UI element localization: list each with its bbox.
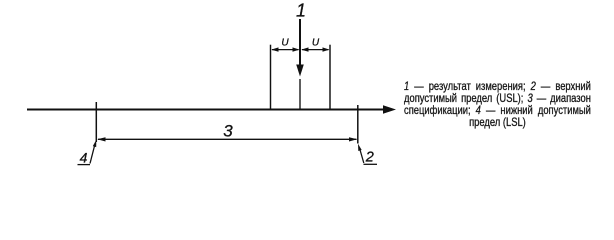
leader to label 2 — [358, 144, 364, 163]
legend text block — [404, 80, 591, 128]
measurement arrow 1 head — [296, 65, 304, 77]
axis line — [27, 109, 385, 111]
right U dimension arrow — [301, 47, 329, 51]
svg-text:U: U — [281, 38, 289, 49]
svg-text:4: 4 — [80, 149, 88, 165]
left U tick — [270, 45, 272, 109]
left U dimension arrow — [271, 47, 299, 51]
leader to label 4 — [90, 140, 96, 164]
label U right — [312, 38, 320, 49]
axis arrowhead — [383, 105, 396, 113]
measurement result tick on axis — [299, 79, 301, 109]
right U tick — [329, 45, 331, 109]
USL tick (node 2) — [357, 105, 359, 144]
svg-text:1: 1 — [296, 1, 306, 21]
label 2 — [364, 150, 378, 166]
label U left — [281, 38, 289, 49]
label 1 — [296, 1, 306, 21]
svg-text:3: 3 — [223, 121, 233, 140]
svg-text:2: 2 — [365, 150, 374, 166]
LSL tick (node 4) — [95, 102, 97, 142]
label 3 — [223, 121, 233, 140]
dimension line 3 — [97, 137, 357, 141]
label 4 — [78, 149, 91, 165]
measurement arrow 1 shaft — [299, 19, 301, 66]
svg-text:U: U — [312, 38, 320, 49]
